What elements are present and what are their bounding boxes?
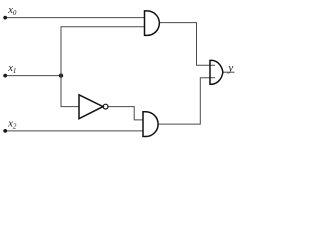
node x2 terminal dot bbox=[3, 129, 7, 133]
node x1 terminal dot bbox=[3, 74, 7, 78]
svg-text:x1: x1 bbox=[7, 63, 16, 75]
wire x2 horizontal bbox=[5, 130, 143, 132]
wire x1 branch up to AND1 input bbox=[61, 27, 145, 76]
svg-text:x2: x2 bbox=[7, 119, 17, 131]
svg-text:x0: x0 bbox=[7, 5, 17, 17]
wire AND1 output to OR input bbox=[159, 23, 215, 66]
or-gate U4 bbox=[210, 60, 223, 84]
not-gate U3 bubble bbox=[103, 104, 108, 109]
wire AND2 output to OR input bbox=[158, 78, 215, 124]
wire x1 branch down to NOT input bbox=[61, 76, 79, 107]
svg-text:y: y bbox=[227, 62, 233, 74]
wire x0 horizontal bbox=[5, 17, 145, 19]
not-gate U3 triangle bbox=[79, 95, 103, 119]
wire x1 horizontal bbox=[5, 75, 61, 77]
junction node on x1 bbox=[59, 73, 63, 77]
and-gate U2 bottom bbox=[143, 112, 158, 137]
node x0 terminal dot bbox=[3, 16, 7, 20]
wire NOT output to AND2 input bbox=[108, 107, 143, 120]
and-gate U1 top bbox=[145, 11, 160, 36]
wire OR output bbox=[223, 71, 235, 73]
